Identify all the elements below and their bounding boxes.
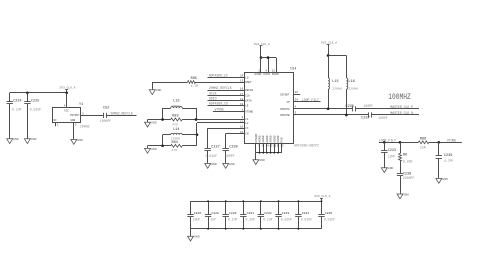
- svg-text:0.1UF: 0.1UF: [246, 218, 256, 222]
- svg-text:R85: R85: [191, 77, 197, 81]
- svg-text:GND: GND: [71, 119, 76, 122]
- svg-text:220NH: 220NH: [332, 86, 341, 90]
- svg-text:GND: GND: [194, 236, 200, 239]
- net LOOP_FILT at CP: [294, 98, 321, 102]
- net 20MHZ_REFCLK: [208, 86, 245, 90]
- svg-text:C233: C233: [282, 211, 290, 215]
- svg-text:0.01UF: 0.01UF: [281, 218, 293, 222]
- svg-text:RSET: RSET: [245, 81, 252, 84]
- wire stub right: [196, 108, 198, 120]
- ground: [205, 162, 217, 168]
- label 100MHZ: [388, 93, 411, 102]
- svg-text:0.1UF: 0.1UF: [12, 108, 22, 112]
- svg-text:GND: GND: [211, 163, 217, 166]
- capacitor C226: [187, 201, 201, 229]
- svg-text:LOOP_FILT: LOOP_FILT: [302, 98, 319, 102]
- svg-text:OUTPUT: OUTPUT: [70, 114, 80, 117]
- svg-text:AGND: AGND: [259, 135, 262, 142]
- svg-text:GND: GND: [388, 167, 394, 170]
- svg-text:L14: L14: [173, 128, 179, 132]
- wire: [328, 48, 346, 56]
- node: [260, 56, 263, 59]
- svg-text:C227: C227: [211, 145, 219, 149]
- node: [161, 144, 164, 147]
- svg-text:1UF: 1UF: [210, 218, 216, 222]
- svg-text:C223: C223: [388, 149, 396, 153]
- ground: [188, 235, 200, 241]
- svg-text:GND: GND: [31, 138, 37, 141]
- svg-text:24: 24: [295, 98, 299, 101]
- svg-text:GND: GND: [404, 193, 410, 196]
- net SCLK: [208, 92, 245, 96]
- pin 1 NC: [56, 122, 59, 127]
- wire ground bus bottom: [191, 228, 322, 230]
- svg-text:100MHZ: 100MHZ: [388, 93, 411, 102]
- capacitor C232: [258, 201, 273, 229]
- wire: [66, 93, 68, 108]
- svg-text:4.7K: 4.7K: [191, 84, 199, 88]
- svg-text:18: 18: [240, 98, 244, 101]
- svg-text:VTUNE: VTUNE: [215, 108, 225, 112]
- power 3V3_CLK_A above L15 L16: [321, 41, 337, 47]
- wire: [260, 49, 262, 58]
- inductor L13: [163, 100, 196, 109]
- svg-text:21: 21: [272, 69, 276, 72]
- resistor R6: [399, 154, 413, 164]
- svg-text:3V3_CLK_A: 3V3_CLK_A: [59, 87, 75, 90]
- svg-text:LE: LE: [245, 105, 249, 108]
- svg-text:ADF4360-9BCPZ: ADF4360-9BCPZ: [294, 143, 319, 147]
- svg-text:R6: R6: [403, 154, 407, 158]
- svg-text:LOOP_FILT: LOOP_FILT: [379, 138, 396, 142]
- pin 3 OUTPUT wire: [81, 112, 103, 115]
- svg-text:17: 17: [240, 93, 244, 96]
- svg-text:GND: GND: [156, 89, 162, 92]
- svg-text:GND: GND: [259, 159, 265, 162]
- node: [437, 141, 440, 144]
- nodes on ground bus: [259, 152, 279, 154]
- svg-text:VTUNE: VTUNE: [245, 111, 253, 114]
- capacitor C231: [240, 201, 255, 229]
- node: [345, 114, 348, 117]
- svg-text:VCC: VCC: [64, 110, 69, 113]
- wire CC pin to C227: [208, 128, 245, 148]
- svg-text:L16: L16: [348, 80, 354, 84]
- wire: [10, 92, 67, 94]
- ground: [71, 138, 83, 144]
- ground: [223, 162, 235, 168]
- wire stub left: [162, 108, 164, 120]
- svg-text:2200PF: 2200PF: [403, 176, 415, 180]
- net ADF4360_LD: [208, 73, 245, 77]
- capacitor C230: [223, 145, 238, 162]
- resistor R84: [148, 141, 197, 152]
- pin 4 VCC: [64, 105, 66, 108]
- svg-text:0.01UF: 0.01UF: [206, 154, 218, 158]
- svg-text:GND: GND: [229, 163, 235, 166]
- svg-text:22K: 22K: [420, 145, 426, 149]
- wire net MASTER_CLK_P: [356, 105, 420, 109]
- wire stub right: [196, 135, 198, 146]
- svg-text:AGND: AGND: [262, 135, 265, 142]
- svg-text:20: 20: [295, 91, 299, 94]
- svg-text:1000PF: 1000PF: [100, 119, 112, 123]
- node C225 junction: [26, 91, 29, 94]
- svg-text:470: 470: [172, 123, 178, 127]
- svg-text:DATA: DATA: [245, 100, 252, 103]
- ground: [397, 193, 409, 199]
- svg-text:16: 16: [240, 87, 244, 90]
- svg-text:0.1UF: 0.1UF: [263, 218, 273, 222]
- node: [267, 56, 270, 59]
- svg-text:C239: C239: [444, 154, 452, 158]
- wire RFOUTA: [294, 108, 353, 110]
- wire L2 to L14: [197, 123, 245, 135]
- capacitor C236: [346, 104, 374, 111]
- svg-text:19: 19: [240, 103, 244, 106]
- svg-text:DIVOUT: DIVOUT: [280, 94, 290, 97]
- capacitor C224: [7, 93, 22, 138]
- svg-text:R84: R84: [172, 141, 178, 145]
- ground: [24, 138, 36, 144]
- svg-text:470: 470: [172, 148, 178, 152]
- pin 2 GND: [74, 122, 77, 138]
- svg-text:20MHZ_REFCLK: 20MHZ_REFCLK: [209, 86, 232, 90]
- svg-text:23: 23: [240, 75, 244, 78]
- nodes cap bank: [207, 200, 322, 230]
- wire net 20MHZ_REFCLK: [106, 112, 136, 116]
- svg-text:LD: LD: [245, 76, 249, 79]
- svg-text:C232: C232: [264, 211, 272, 215]
- svg-text:C236: C236: [346, 105, 354, 109]
- wire RFOUTB: [294, 114, 369, 116]
- svg-text:MASTER_CLK_P: MASTER_CLK_P: [390, 105, 413, 109]
- wire ground bus: [256, 152, 282, 154]
- svg-text:270NH: 270NH: [171, 104, 180, 108]
- capacitor C237: [361, 112, 388, 120]
- capacitor C229: [223, 201, 238, 229]
- node: [327, 107, 330, 110]
- svg-text:CLK: CLK: [245, 95, 250, 98]
- svg-text:VTUNE: VTUNE: [447, 138, 457, 142]
- pin 20 DIVOUT stub: [294, 94, 301, 96]
- svg-text:GND: GND: [151, 148, 157, 151]
- capacitor C228: [205, 201, 219, 229]
- wire: [152, 82, 187, 84]
- capacitor C239: [436, 142, 454, 177]
- wire: [152, 82, 154, 89]
- node: [196, 133, 199, 136]
- capacitor C235: [318, 201, 335, 229]
- bottom ground pins: [255, 133, 284, 152]
- wire: [190, 229, 192, 235]
- svg-text:3V3_CLK_A: 3V3_CLK_A: [321, 41, 337, 44]
- wire net VTUNE: [429, 138, 462, 142]
- svg-text:AGND: AGND: [273, 135, 276, 142]
- svg-text:AVDD VVCO DVDD: AVDD VVCO DVDD: [254, 73, 279, 76]
- left pin numbers: [240, 75, 244, 134]
- capacitor C234: [295, 201, 312, 229]
- wire CN pin to C230: [226, 134, 245, 149]
- wire: [400, 142, 402, 153]
- svg-text:100PF: 100PF: [225, 154, 235, 158]
- svg-text:0.01UF: 0.01UF: [324, 218, 336, 222]
- ground: [381, 167, 393, 173]
- right pin names: [280, 94, 290, 117]
- svg-text:11: 11: [240, 120, 244, 123]
- svg-text:SDIO: SDIO: [209, 97, 217, 101]
- svg-text:3V3_CLK_A: 3V3_CLK_A: [254, 43, 270, 46]
- svg-text:DGND: DGND: [277, 135, 280, 142]
- svg-text:MASTER_CLK_N: MASTER_CLK_N: [390, 111, 413, 115]
- svg-text:0.1UF: 0.1UF: [228, 218, 238, 222]
- svg-text:U14: U14: [291, 67, 297, 71]
- svg-text:CC: CC: [245, 127, 249, 130]
- top pin numbers 2 4 21: [258, 69, 275, 72]
- top power 3V3_CLK_A: [254, 43, 270, 49]
- svg-text:Y1: Y1: [79, 103, 83, 107]
- node power junction: [65, 91, 68, 94]
- svg-text:12: 12: [240, 131, 244, 134]
- svg-text:SCLK: SCLK: [209, 92, 217, 96]
- svg-text:L1: L1: [245, 118, 249, 121]
- capacitor C238: [397, 172, 415, 193]
- capacitor C223: [381, 142, 396, 166]
- svg-text:C228: C228: [211, 211, 219, 215]
- left pin names: [245, 76, 253, 135]
- svg-text:10: 10: [240, 126, 244, 129]
- svg-text:220NH: 220NH: [348, 86, 357, 90]
- net SDIO: [208, 97, 245, 101]
- ground: [149, 89, 161, 95]
- node: [327, 54, 330, 57]
- svg-text:C224: C224: [13, 100, 21, 104]
- wire: [261, 58, 277, 73]
- svg-text:C52: C52: [103, 107, 109, 111]
- wire power bus top: [191, 201, 322, 203]
- node: [383, 141, 386, 144]
- svg-text:8.25K: 8.25K: [403, 159, 413, 163]
- svg-text:R86: R86: [420, 137, 426, 141]
- svg-text:C234: C234: [302, 211, 310, 215]
- svg-text:4.7PF: 4.7PF: [444, 159, 454, 163]
- svg-text:AGND: AGND: [266, 135, 269, 142]
- svg-text:25: 25: [281, 145, 285, 148]
- wire net LOOP_FILT: [379, 138, 419, 142]
- svg-text:3V3_CLK_A: 3V3_CLK_A: [314, 195, 330, 198]
- svg-text:0.01UF: 0.01UF: [301, 218, 313, 222]
- svg-text:CP: CP: [287, 101, 291, 104]
- svg-text:GND: GND: [13, 138, 19, 141]
- svg-text:270NH: 270NH: [171, 136, 180, 140]
- node: [195, 118, 198, 121]
- svg-text:REFIN: REFIN: [245, 89, 253, 92]
- svg-text:10UF: 10UF: [193, 218, 201, 222]
- capacitor C233: [275, 201, 292, 229]
- svg-text:20MHZ: 20MHZ: [80, 124, 90, 128]
- resistor R86: [418, 137, 429, 149]
- capacitor C225: [24, 93, 41, 138]
- svg-text:C225: C225: [31, 100, 39, 104]
- ground: [436, 177, 448, 183]
- svg-text:AGND: AGND: [270, 135, 273, 142]
- svg-text:12PF: 12PF: [388, 154, 396, 158]
- net VTUNE: [213, 108, 244, 112]
- svg-text:C226: C226: [194, 211, 202, 215]
- ground: [7, 138, 19, 144]
- op-amp U14 ADF4360-9BCPZ body: [245, 67, 319, 148]
- capacitor C227: [205, 145, 220, 162]
- svg-text:100PF: 100PF: [378, 116, 388, 120]
- svg-text:L13: L13: [173, 100, 179, 104]
- oscillator Y1: [53, 103, 90, 128]
- svg-text:GND: GND: [442, 178, 448, 181]
- resistor R85: [188, 77, 199, 88]
- inductor L15: [328, 56, 342, 109]
- svg-text:100PF: 100PF: [363, 104, 373, 108]
- net ADF4360_CS: [208, 102, 245, 106]
- wire: [255, 153, 257, 159]
- ground: [253, 159, 265, 165]
- wire net MASTER_CLK_N: [372, 111, 419, 115]
- svg-text:20MHZ_REFCLK: 20MHZ_REFCLK: [110, 112, 133, 116]
- capacitor C52: [100, 107, 112, 124]
- power 3V3_CLK_A cap bank: [314, 195, 330, 201]
- svg-text:NC: NC: [54, 119, 58, 122]
- svg-text:RFOUTB: RFOUTB: [280, 114, 290, 117]
- svg-text:C230: C230: [229, 145, 237, 149]
- right pin numbers: [295, 91, 299, 114]
- svg-text:GND: GND: [151, 122, 157, 125]
- svg-text:CN: CN: [245, 133, 249, 136]
- ground: [145, 120, 157, 128]
- svg-text:0.01UF: 0.01UF: [30, 108, 42, 112]
- wire stub left: [162, 135, 164, 146]
- power 3V3_CLK_A (left): [59, 87, 75, 93]
- svg-text:CPGND: CPGND: [255, 133, 258, 142]
- svg-text:ADF4360_LD: ADF4360_LD: [209, 73, 228, 77]
- svg-text:ADF4360_CS: ADF4360_CS: [209, 102, 228, 106]
- wire to RSET pin: [196, 82, 245, 84]
- node: [399, 141, 402, 144]
- svg-text:C229: C229: [229, 211, 237, 215]
- svg-text:13: 13: [240, 79, 244, 82]
- wire: [400, 161, 402, 173]
- svg-text:L2: L2: [245, 122, 249, 125]
- ground: [145, 146, 157, 153]
- svg-text:GND: GND: [77, 139, 83, 142]
- node: [161, 118, 164, 121]
- svg-text:C231: C231: [247, 211, 255, 215]
- svg-text:R83: R83: [172, 115, 178, 119]
- svg-text:C235: C235: [325, 211, 333, 215]
- svg-text:L15: L15: [332, 80, 338, 84]
- inductor L14: [163, 128, 197, 141]
- svg-text:RFOUTA: RFOUTA: [280, 108, 290, 111]
- svg-text:C237: C237: [361, 116, 369, 120]
- inductor L16: [346, 56, 357, 116]
- svg-text:PAD: PAD: [281, 137, 284, 143]
- resistor R83: [148, 115, 245, 127]
